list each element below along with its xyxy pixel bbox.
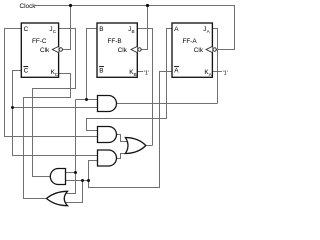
svg-text:C: C (24, 67, 29, 74)
AND gate 3 (C-bar AND A-bar) (98, 150, 117, 166)
wire A-bar branch to OR5 input 2 (65, 181, 83, 203)
FF-C clock triangle (52, 46, 58, 52)
wire K_C net (OR5 output up to K_C) (24, 74, 71, 199)
junction dot B joins AND1 input (85, 98, 88, 101)
wire A-bar output net (FF-A down and left) (89, 72, 173, 188)
FF-A clock bubble (213, 48, 216, 51)
junction dot B branch to OR5 (74, 171, 77, 174)
wire clock drop to FF-C Clk (62, 6, 71, 50)
svg-text:B: B (132, 29, 135, 34)
svg-text:Clk: Clk (194, 47, 204, 54)
wire C-bar output net (to AND1 input 2 and AND3 input 1) (13, 71, 100, 156)
wire J_B net riser (137, 29, 152, 146)
junction dot clock to FF-C (69, 4, 72, 7)
svg-text:C: C (24, 26, 29, 33)
wire K_B tied to logic 1 (137, 71, 143, 73)
svg-text:Clk: Clk (40, 47, 50, 54)
wire A-bar net wire2 to AND4 input 2 (65, 180, 89, 182)
svg-text:FF-C: FF-C (32, 38, 47, 45)
svg-text:A: A (174, 67, 179, 74)
wire C-bar branch to AND1 input 2 (13, 107, 100, 109)
FF-A clock triangle (206, 46, 212, 52)
wire A output net (FF-A to AND2 input 1) (87, 29, 173, 131)
svg-text:FF-A: FF-A (183, 38, 198, 45)
svg-text:'1': '1' (144, 70, 149, 76)
wire C output net (C to AND2 input 2) (5, 29, 100, 137)
flip-flop FF-A box (172, 23, 212, 77)
wire OR-B output to J_B riser (146, 145, 153, 147)
wire clock drop to FF-B Clk (140, 6, 148, 50)
junction dot C-bar branch (11, 106, 14, 109)
svg-text:B: B (99, 67, 103, 74)
svg-text:Clock: Clock (20, 3, 37, 10)
wire AND2 output into OR-B input 1 (114, 135, 128, 142)
wire AND3 output into OR-B input 2 (114, 154, 128, 159)
svg-text:'1': '1' (223, 70, 228, 76)
FF-B clock triangle (131, 46, 137, 52)
wire B output down from FF-B (87, 29, 98, 100)
svg-text:Clk: Clk (118, 47, 128, 54)
wire B net riser down to AND4 input 1 (75, 100, 77, 173)
wire K_A tied to logic 1 (212, 71, 222, 73)
AND gate 2 (A AND C) (98, 127, 117, 143)
wire AND4 input 1 segment (65, 172, 76, 174)
junction dot A-bar riser (87, 179, 90, 182)
svg-text:C: C (53, 29, 57, 34)
svg-text:FF-B: FF-B (108, 38, 122, 45)
FF-C clock bubble (59, 48, 62, 51)
flip-flop FF-C box (21, 23, 58, 77)
svg-text:A: A (174, 26, 179, 33)
FF-B clock bubble (138, 48, 141, 51)
wire A-bar branch up to AND3 input 2 (89, 161, 100, 181)
wire B net horizontal into AND1 input 1 (76, 99, 100, 101)
svg-text:B: B (134, 72, 137, 77)
wire B branch to OR5 input 1 (65, 173, 76, 194)
OR gate driving J_B (125, 138, 145, 154)
svg-text:C: C (55, 72, 59, 77)
flip-flop FF-B box (97, 23, 137, 77)
OR gate 5 left-pointing (drives J_C) (47, 191, 68, 205)
wire J_C net (AND4 output up to J_C) (33, 29, 76, 177)
AND gate 1 (B AND C-bar, drives J_A) (98, 96, 117, 112)
svg-text:B: B (99, 26, 103, 33)
wire AND1 output to J_A riser (114, 103, 218, 105)
junction dot A-bar branch to OR5 (81, 179, 84, 182)
AND gate 4 left-pointing (drives K_C) (50, 169, 65, 185)
junction dot clock to FF-B (146, 4, 149, 7)
wire J_A net riser (212, 29, 217, 104)
wire Clock line (35, 6, 235, 50)
